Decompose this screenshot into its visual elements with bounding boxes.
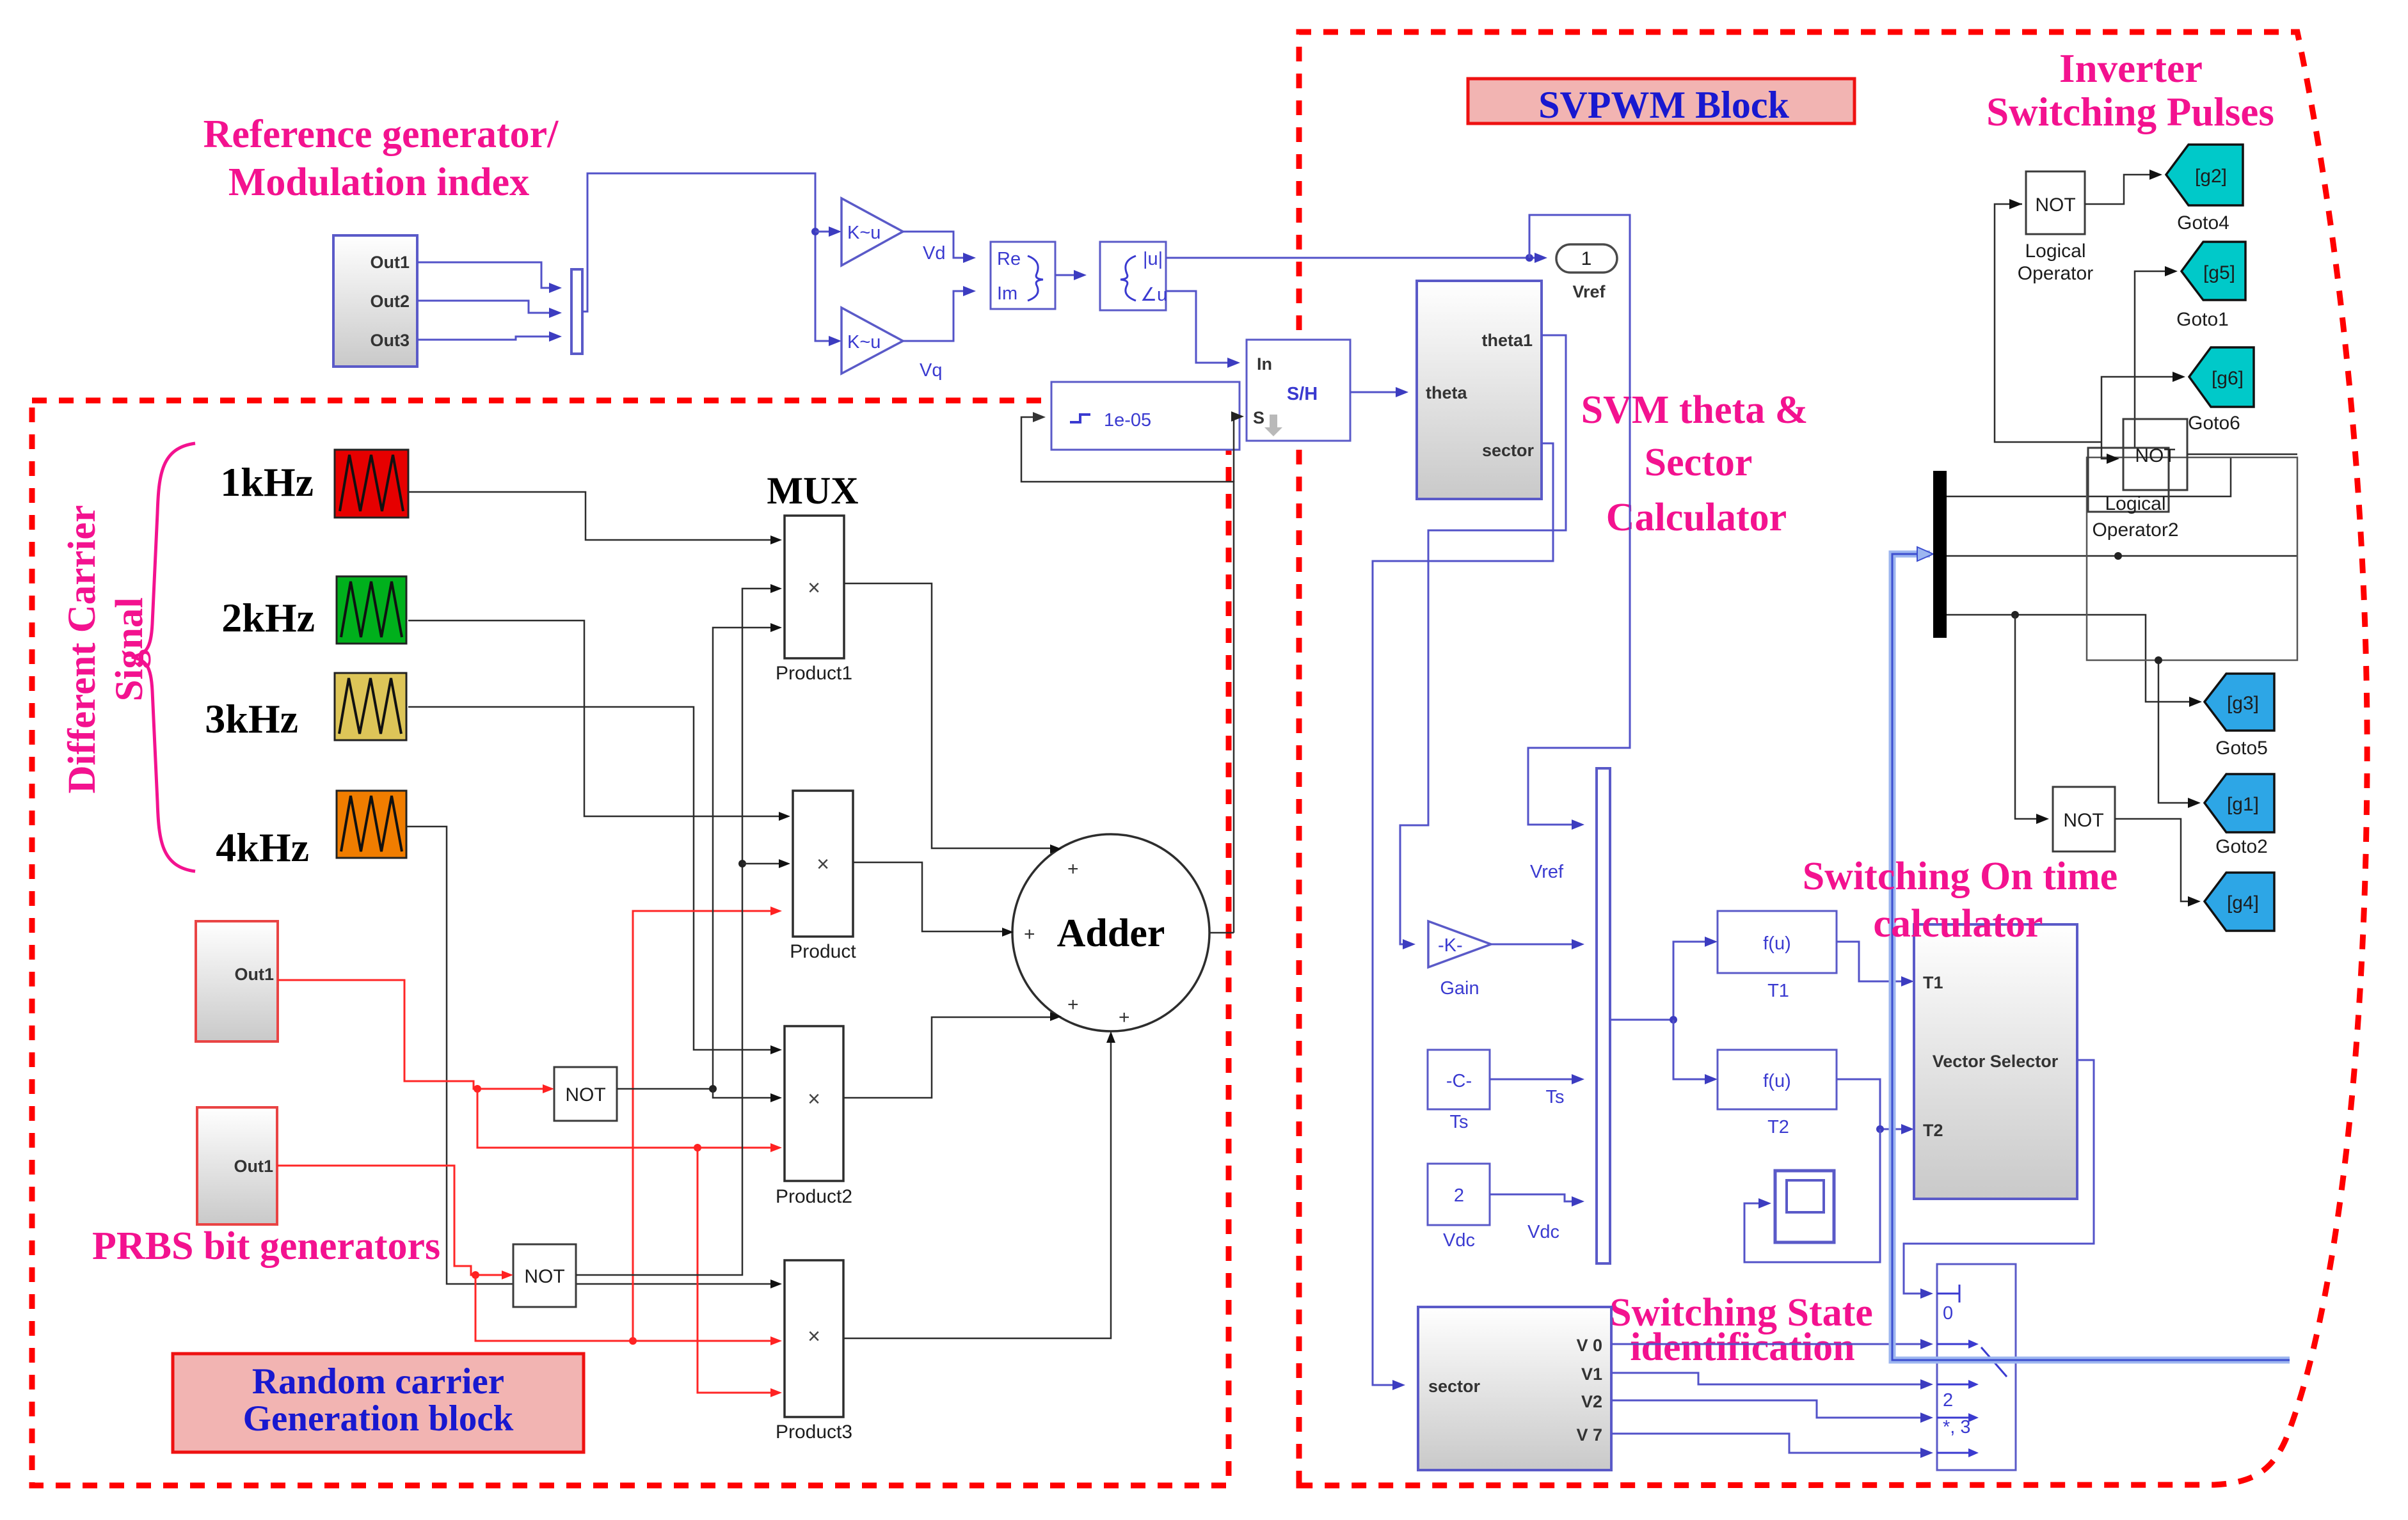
mux bar (5 input) tall — [1597, 768, 1610, 1263]
svg-text:-K-: -K- — [1438, 935, 1463, 956]
wire demux out bottom to Goto5 — [1947, 615, 2192, 702]
wire Ts to mux5 — [1490, 1079, 1574, 1081]
svg-text:+: + — [1119, 1007, 1130, 1028]
wire Product3 out to adder — [843, 1040, 1111, 1338]
goto tag Goto1 [g5] — [2181, 242, 2245, 300]
wire Vector Selector out to switch criteria — [1904, 1060, 2094, 1294]
block PRBS generator Out1 (upper) — [196, 921, 278, 1041]
wire feedback into Logical Operator NOT — [1995, 204, 2101, 442]
svg-text:[g2]: [g2] — [2195, 166, 2227, 187]
goto tag Goto6 [g6] — [2189, 347, 2254, 407]
wire V7 to switch — [1611, 1434, 1923, 1453]
goto tag Goto4 [g2] — [2166, 145, 2243, 205]
svg-text:Vdc: Vdc — [1443, 1230, 1475, 1251]
brace for carrier signals — [132, 443, 195, 871]
wire NOT upper out to Product1 in3 / Product2 in2 — [617, 628, 773, 1089]
wire mux bar up and to gains — [582, 173, 832, 341]
svg-text:Sector: Sector — [1645, 441, 1753, 484]
carrier source 1kHz (red) — [335, 450, 408, 518]
svg-text:3kHz: 3kHz — [205, 696, 298, 741]
wire Vref branch down to mux5 input1 — [1528, 215, 1630, 825]
wire trigger loop into 1e-05 — [1021, 417, 1234, 933]
svg-text:Reference generator/: Reference generator/ — [203, 113, 559, 156]
svg-text:2: 2 — [1943, 1390, 1953, 1411]
wire 1e-05 out to S/H S input — [1234, 416, 1235, 482]
big routing rectangle — [2087, 457, 2297, 660]
svg-text:K~u: K~u — [847, 332, 881, 352]
wire 2kHz to Product in1 — [408, 621, 781, 816]
carrier source 4kHz (orange) — [337, 791, 406, 858]
wire Out1 to mux bar — [417, 262, 550, 288]
wire magnitude to Vref outport (long) — [1166, 257, 1537, 259]
svg-text:S/H: S/H — [1287, 384, 1318, 404]
wire PRBS upper to NOT (red) — [278, 980, 546, 1089]
svg-text:theta1: theta1 — [1481, 331, 1533, 350]
wire Product out to adder — [853, 862, 1005, 931]
svg-text:Modulation index: Modulation index — [228, 161, 529, 204]
svg-text:+: + — [1067, 994, 1079, 1015]
svg-text:Out2: Out2 — [370, 292, 410, 311]
wire to NOT3 — [2015, 615, 2039, 819]
svg-text:1: 1 — [1581, 248, 1592, 269]
svg-text:MUX: MUX — [767, 470, 858, 512]
wire V0 to switch — [1611, 1343, 1923, 1345]
svg-text:Goto2: Goto2 — [2215, 836, 2268, 857]
svg-text:2kHz: 2kHz — [221, 595, 315, 640]
dashed border: SVPWM block region — [1299, 32, 2367, 1485]
block Product — [793, 791, 853, 937]
block Vdc constant — [1428, 1164, 1490, 1225]
svg-text:NOT: NOT — [2135, 445, 2175, 466]
svg-text:+: + — [1024, 924, 1035, 945]
svg-text:1kHz: 1kHz — [220, 459, 314, 505]
gain K (lower, Vq) — [841, 308, 903, 374]
svg-text:Out1: Out1 — [370, 253, 410, 272]
block NOT (left lower) — [513, 1244, 576, 1307]
svg-text:K~u: K~u — [847, 223, 881, 243]
label box Random carrier Generation block — [173, 1354, 584, 1452]
svg-text:Vdc: Vdc — [1527, 1222, 1559, 1242]
svg-text:sector: sector — [1482, 441, 1535, 460]
wire Product1 out to adder — [844, 583, 1053, 848]
svg-text:4kHz: 4kHz — [216, 825, 309, 870]
svg-text:NOT: NOT — [2063, 810, 2103, 831]
svg-text:Inverter: Inverter — [2059, 46, 2203, 91]
svg-text:f(u): f(u) — [1763, 1071, 1791, 1091]
goto tag Goto2 [g1] — [2205, 774, 2274, 832]
dashed border: random carrier generation region — [32, 400, 1229, 1485]
svg-text:Calculator: Calculator — [1606, 496, 1787, 539]
svg-text:theta: theta — [1426, 383, 1467, 402]
svg-text:∠u: ∠u — [1140, 285, 1167, 305]
svg-text:Vq: Vq — [920, 360, 942, 381]
block Ts constant — [1428, 1050, 1490, 1109]
svg-text:[g3]: [g3] — [2227, 693, 2259, 714]
wire T2 out to Vector Selector T2 — [1837, 1079, 1904, 1129]
svg-text:NOT: NOT — [565, 1084, 605, 1105]
wire highlighted switch output (light blue) — [1892, 554, 2290, 1360]
wire sector out down to sector block — [1373, 443, 1553, 1385]
svg-text:Random carrier: Random carrier — [252, 1361, 504, 1402]
wire Out2 to mux bar — [417, 301, 550, 313]
goto tag [g4] — [2205, 873, 2274, 931]
svg-text:2: 2 — [1454, 1185, 1464, 1206]
label box SVPWM Block — [1468, 79, 1854, 123]
svg-text:Vref: Vref — [1530, 862, 1564, 882]
wire T2 branch to scope — [1744, 1129, 1880, 1262]
block Real-Imag to Complex — [991, 242, 1055, 309]
wire Vdc to mux5 — [1490, 1194, 1574, 1201]
svg-text:Out3: Out3 — [370, 331, 410, 350]
wire 1kHz to Product1 in1 — [408, 492, 773, 540]
wire Gain out to mux5 — [1491, 944, 1574, 946]
wire NOT lower out to Product in2 / Product1 in2 — [576, 589, 773, 1275]
wire 3kHz to Product2 in1 — [408, 707, 773, 1050]
svg-text:[g4]: [g4] — [2227, 892, 2259, 914]
svg-text:Switching Pulses: Switching Pulses — [1986, 90, 2274, 134]
svg-text:f(u): f(u) — [1763, 933, 1791, 954]
svg-text:1e-05: 1e-05 — [1104, 410, 1151, 431]
block Product3 — [785, 1260, 843, 1417]
wire T1 out to Vector Selector T1 — [1837, 942, 1904, 981]
demux bar (black) — [1933, 471, 1947, 638]
block NOT (left upper) — [554, 1067, 617, 1121]
wire angle to S/H In — [1166, 291, 1230, 363]
block PRBS generator Out1 (lower) — [197, 1107, 277, 1224]
svg-text:Logical: Logical — [2105, 493, 2165, 514]
svg-text:T2: T2 — [1767, 1117, 1789, 1137]
svg-text:Generation block: Generation block — [243, 1398, 514, 1439]
block Product1 — [785, 516, 844, 658]
gain K (upper, Vd) — [841, 198, 903, 265]
svg-text:S: S — [1253, 408, 1264, 427]
svg-text:×: × — [808, 1087, 820, 1111]
svg-text:sector: sector — [1428, 1377, 1481, 1396]
svg-text:Operator2: Operator2 — [2092, 519, 2178, 541]
svg-text:Product2: Product2 — [776, 1186, 852, 1207]
svg-text:SVPWM Block: SVPWM Block — [1538, 84, 1789, 126]
wire red branch to Product3 in2 and Product in3 — [475, 1275, 773, 1341]
svg-text:In: In — [1257, 354, 1272, 374]
wire NOT out to Goto4 — [2085, 175, 2152, 204]
svg-text:Goto4: Goto4 — [2177, 212, 2229, 234]
svg-text:Product1: Product1 — [776, 663, 852, 684]
wire Product2 out to adder — [843, 1017, 1053, 1098]
wire NOT3 out to Goto3 [g4] — [2115, 819, 2190, 901]
svg-text:Operator: Operator — [2018, 263, 2093, 284]
goto tag Goto5 [g3] — [2205, 674, 2274, 731]
svg-text:-C-: -C- — [1446, 1071, 1472, 1091]
wire adder out — [1209, 932, 1234, 934]
wire red branch to Product2 in3 and Product3 in3 — [477, 1089, 773, 1148]
outport Vref oval — [1556, 244, 1617, 273]
wire complex to mag-angle — [1055, 274, 1076, 276]
svg-text:×: × — [808, 576, 820, 600]
carrier source 2kHz (green) — [337, 576, 406, 644]
svg-text:SVM theta &: SVM theta & — [1581, 388, 1808, 432]
block T2 f(u) — [1718, 1050, 1837, 1109]
svg-text:|u|: |u| — [1143, 249, 1163, 269]
wire Logical Operator2 out — [2187, 454, 2297, 455]
wire to Goto1 — [2135, 271, 2167, 448]
wire V1 to switch — [1611, 1373, 1923, 1384]
svg-text:T1: T1 — [1767, 981, 1789, 1001]
mux bar (3 to 1) — [571, 269, 582, 354]
wire Out3 to mux bar — [417, 336, 550, 340]
svg-text:Different Carrier: Different Carrier — [61, 505, 104, 793]
svg-text:Re: Re — [997, 249, 1021, 269]
svg-text:Product3: Product3 — [776, 1421, 852, 1443]
block sector identification — [1418, 1307, 1611, 1470]
svg-text:×: × — [817, 852, 829, 876]
wire 4kHz to Product3 in1 — [406, 827, 773, 1284]
block Vector Selector — [1914, 924, 2077, 1199]
svg-text:V 0: V 0 — [1576, 1336, 1602, 1355]
wire gain upper to Re — [903, 232, 966, 258]
wire to Goto6 — [2101, 377, 2175, 442]
svg-text:Ts: Ts — [1546, 1087, 1565, 1107]
svg-text:0: 0 — [1943, 1303, 1953, 1324]
wire V2 to switch — [1611, 1400, 1923, 1418]
svg-text:V1: V1 — [1581, 1365, 1602, 1384]
block Product2 — [785, 1026, 843, 1181]
svg-text:Logical: Logical — [2025, 241, 2085, 262]
svg-text:*, 3: *, 3 — [1943, 1417, 1971, 1437]
wire S/H out to theta — [1350, 392, 1398, 393]
svg-text:Goto5: Goto5 — [2215, 738, 2268, 759]
block NOT Logical Operator2 (with offset ghost box) — [2088, 448, 2169, 512]
wire gain lower to Im — [903, 291, 966, 341]
wire PRBS lower to NOT (red) — [277, 1166, 505, 1275]
svg-text:V2: V2 — [1581, 1392, 1602, 1411]
svg-text:Vd: Vd — [923, 243, 945, 264]
block S/H sample and hold — [1247, 340, 1350, 441]
gain -K- triangle — [1428, 921, 1491, 967]
svg-text:Vref: Vref — [1572, 282, 1606, 301]
carrier source 3kHz (yellow) — [335, 673, 406, 740]
svg-text:Ts: Ts — [1450, 1112, 1469, 1132]
wire demux out top — [1947, 457, 2231, 496]
block Complex to Magnitude-Angle — [1100, 242, 1166, 310]
block T1 f(u) — [1718, 911, 1837, 973]
wire theta1 out down to Gain — [1400, 335, 1566, 944]
svg-text:T1: T1 — [1923, 973, 1943, 992]
svg-text:V 7: V 7 — [1576, 1425, 1602, 1445]
svg-text:Adder: Adder — [1057, 912, 1165, 955]
block NOT Logical Operator — [2026, 171, 2085, 234]
block sample time 1e-05 — [1051, 382, 1240, 450]
svg-text:[g6]: [g6] — [2212, 368, 2244, 389]
wire mux5 out split to T1 T2 — [1610, 942, 1707, 1020]
svg-text:[g1]: [g1] — [2227, 794, 2259, 815]
wire into Logical Operator2 — [2101, 442, 2109, 459]
svg-text:PRBS bit generators: PRBS bit generators — [92, 1224, 440, 1268]
svg-text:Vector Selector: Vector Selector — [1933, 1052, 2059, 1071]
svg-text:Gain: Gain — [1440, 978, 1479, 999]
block scope — [1775, 1171, 1834, 1242]
svg-text:identification: identification — [1630, 1326, 1854, 1369]
svg-text:Goto6: Goto6 — [2188, 413, 2240, 434]
block NOT (third) — [2053, 787, 2115, 851]
svg-text:T2: T2 — [1923, 1121, 1943, 1140]
svg-text:+: + — [1067, 859, 1079, 880]
svg-text:NOT: NOT — [524, 1266, 564, 1287]
svg-text:calculator: calculator — [1873, 902, 2043, 946]
adder circle — [1012, 834, 1209, 1031]
svg-text:Im: Im — [997, 283, 1017, 304]
svg-text:Switching On time: Switching On time — [1803, 855, 2118, 898]
block multiport switch — [1937, 1264, 2016, 1470]
svg-text:[g5]: [g5] — [2203, 262, 2235, 283]
svg-text:NOT: NOT — [2035, 194, 2075, 216]
wire demux out middle — [1947, 555, 2297, 557]
svg-text:Product: Product — [790, 941, 856, 962]
block reference subsystem Out1 Out2 Out3 — [333, 235, 417, 367]
svg-text:×: × — [808, 1324, 820, 1349]
svg-text:Out1: Out1 — [234, 1157, 273, 1176]
wire to Goto2 — [2158, 660, 2190, 803]
svg-text:Out1: Out1 — [234, 965, 274, 984]
svg-text:Goto1: Goto1 — [2176, 309, 2229, 330]
block SVM theta & sector calculator — [1417, 281, 1542, 499]
